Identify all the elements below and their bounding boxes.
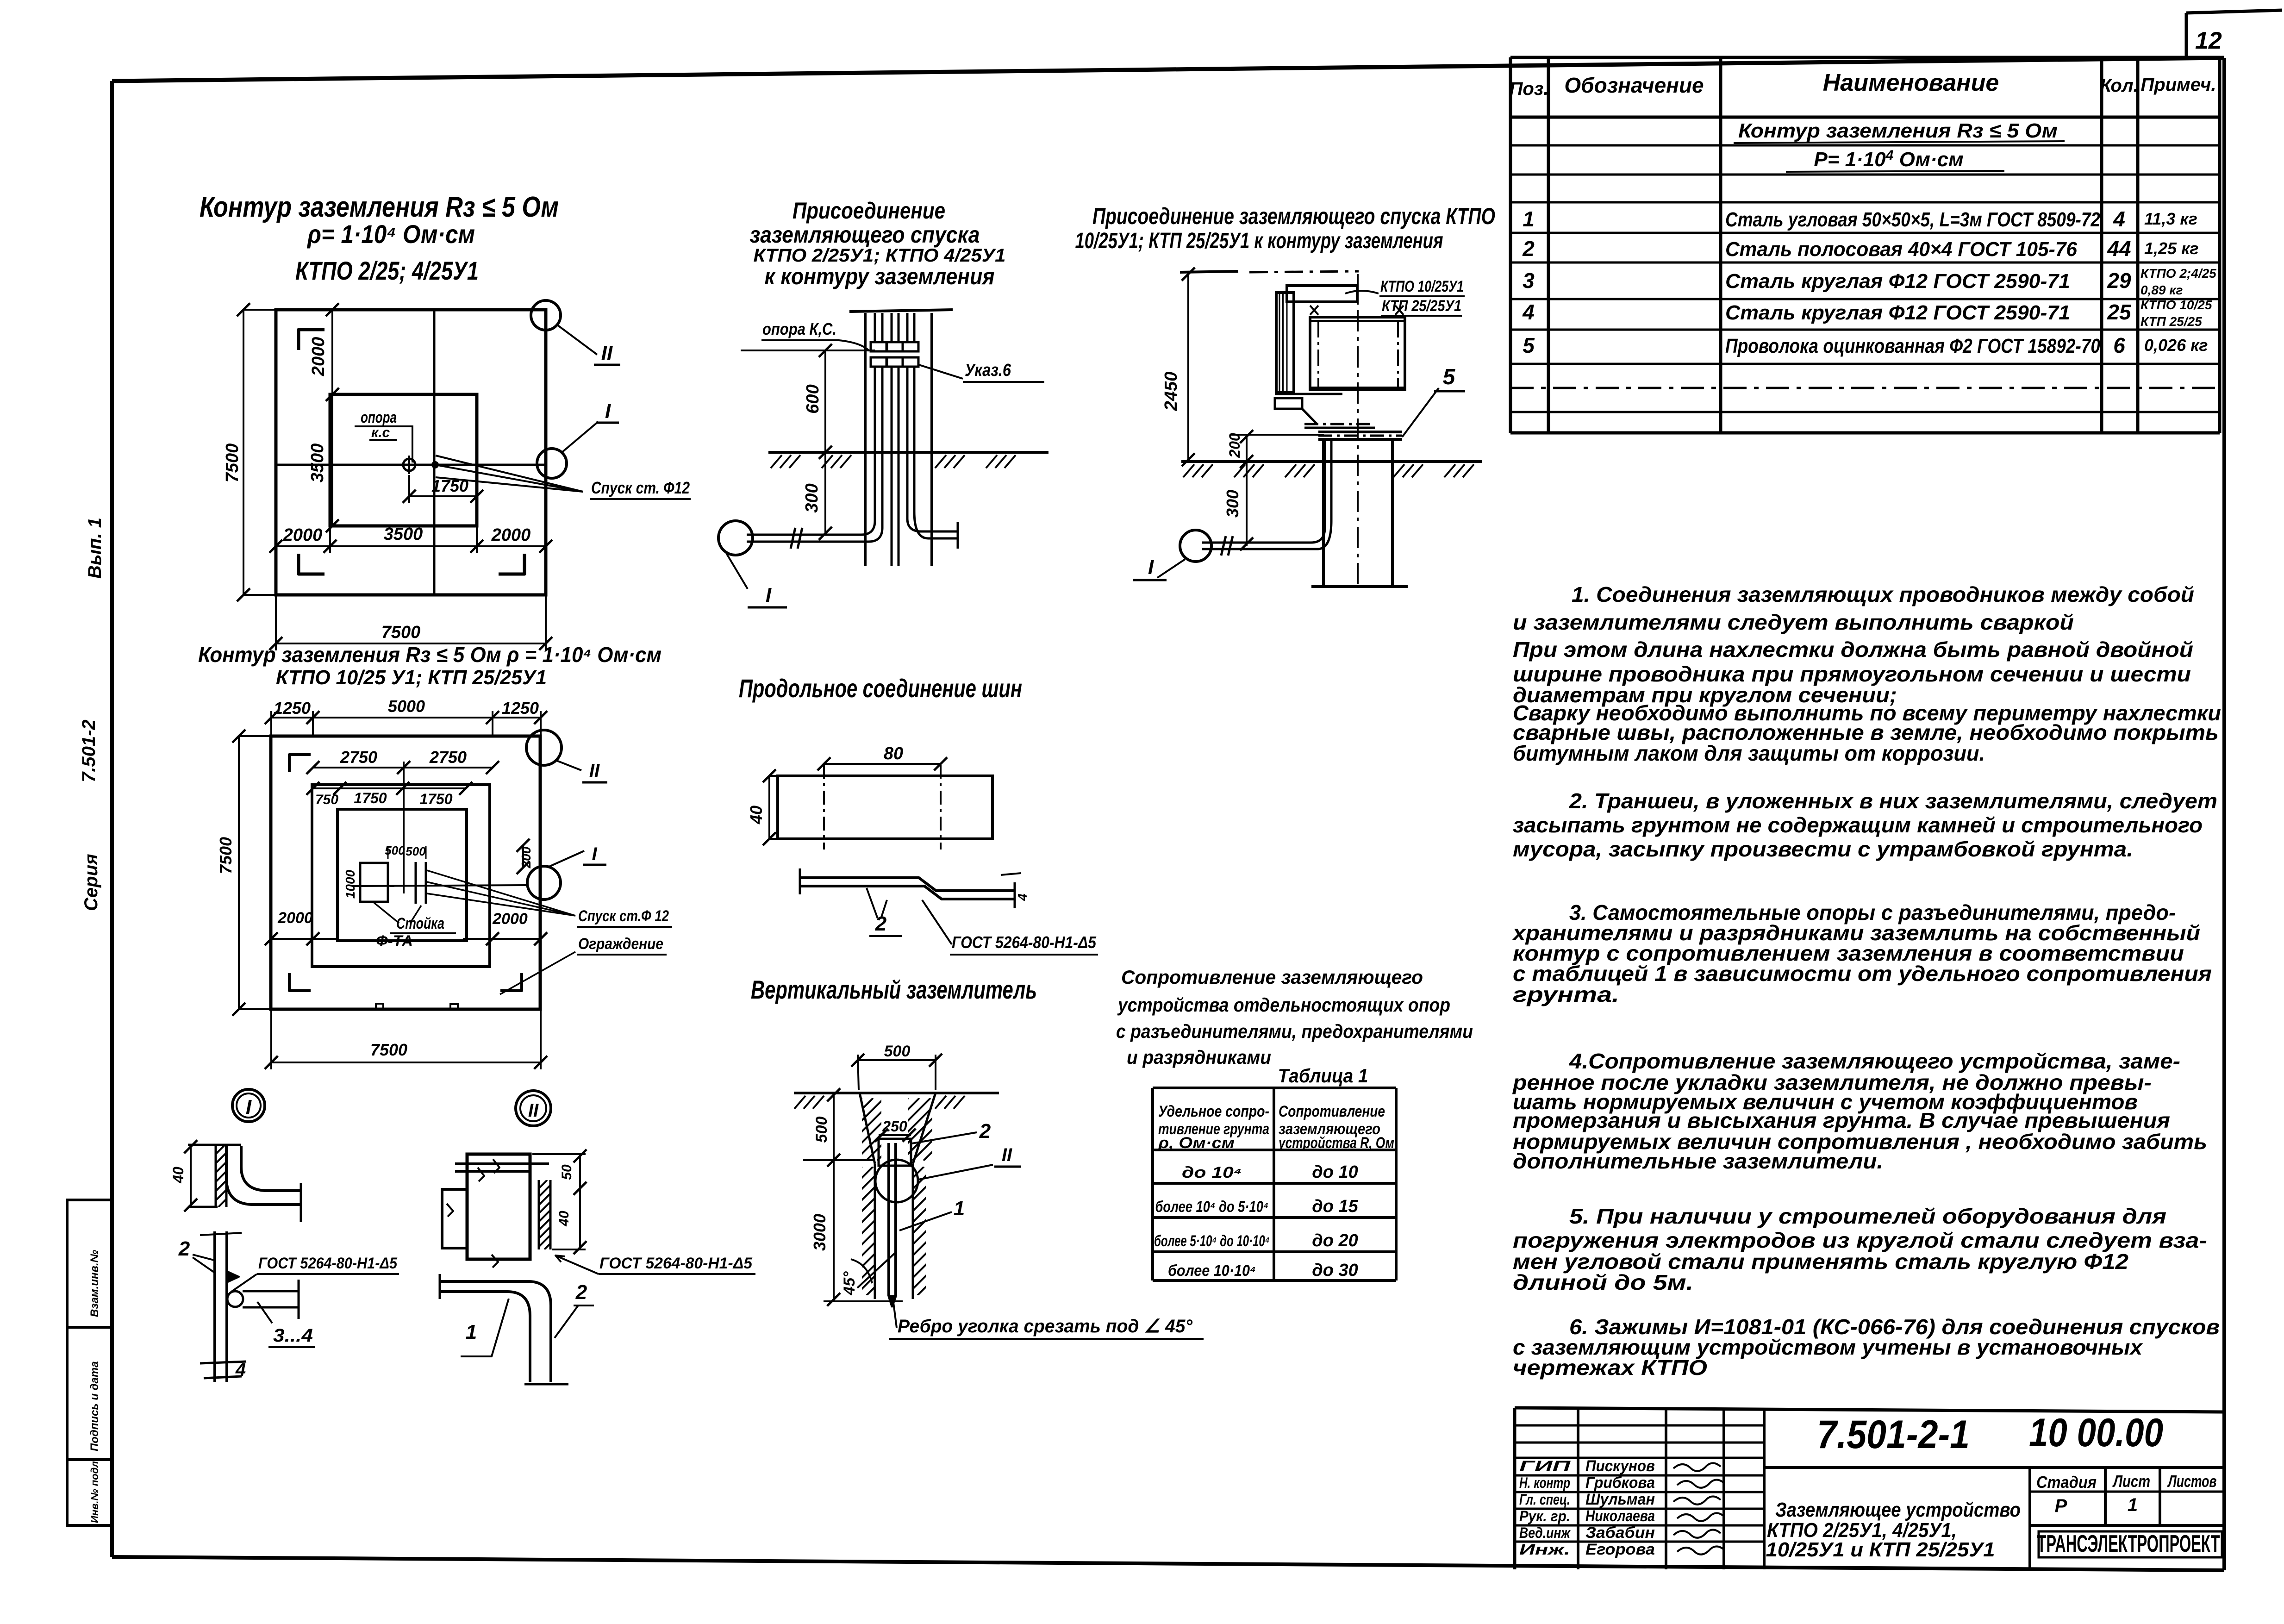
svg-text:Вертикальный заземлитель: Вертикальный заземлитель: [751, 975, 1037, 1004]
svg-text:Продольное соединение шин: Продольное соединение шин: [739, 674, 1022, 703]
svg-text:устройства отдельностоящих о: устройства отдельностоящих опор: [1117, 994, 1450, 1016]
svg-text:ГИП: ГИП: [1519, 1458, 1571, 1474]
svg-text:1250: 1250: [274, 699, 311, 718]
svg-text:Сопротивление: Сопротивление: [1279, 1103, 1385, 1120]
svg-text:засыпать грунтом не содержащ: засыпать грунтом не содержащим камней и …: [1513, 813, 2203, 837]
svg-text:29: 29: [2107, 269, 2131, 293]
svg-text:опора: опора: [361, 409, 397, 426]
svg-text:5. При наличии у строителей: 5. При наличии у строителей оборудования…: [1569, 1204, 2166, 1228]
svg-text:II: II: [528, 1100, 539, 1121]
svg-text:грунта.: грунта.: [1513, 982, 1619, 1006]
svg-text:Таблица 1: Таблица 1: [1278, 1065, 1368, 1087]
svg-text:Ограждение: Ограждение: [578, 935, 663, 953]
svg-text:Листов: Листов: [2167, 1472, 2216, 1491]
svg-text:Поз.: Поз.: [1510, 79, 1549, 99]
svg-text:1: 1: [466, 1321, 477, 1343]
svg-text:50: 50: [559, 1164, 574, 1180]
svg-text:Николаева: Николаева: [1585, 1507, 1655, 1525]
svg-text:Серия: Серия: [81, 854, 101, 911]
svg-text:2750: 2750: [340, 748, 377, 767]
svg-text:Сталь угловая 50×50×5, L=3м ГО: Сталь угловая 50×50×5, L=3м ГОСТ 8509-72: [1725, 208, 2100, 231]
svg-text:2000: 2000: [491, 525, 531, 545]
svg-text:4.Сопротивление заземляющего: 4.Сопротивление заземляющего устройства,…: [1569, 1049, 2180, 1073]
svg-text:КТП 25/25: КТП 25/25: [2140, 314, 2202, 329]
svg-text:более 10⁴ до 5·10⁴: более 10⁴ до 5·10⁴: [1155, 1198, 1269, 1216]
svg-text:Инв.№ подл.: Инв.№ подл.: [89, 1458, 100, 1523]
svg-text:КТПО 10/25 У1; КТП 25/25У1: КТПО 10/25 У1; КТП 25/25У1: [276, 666, 547, 689]
svg-text:2000: 2000: [277, 909, 313, 927]
svg-text:11,3 кг: 11,3 кг: [2144, 209, 2197, 228]
svg-text:КТПО 2/25; 4/25У1: КТПО 2/25; 4/25У1: [295, 256, 479, 285]
svg-text:1000: 1000: [343, 869, 357, 899]
svg-text:до 10⁴: до 10⁴: [1182, 1164, 1242, 1181]
svg-text:750: 750: [315, 792, 338, 807]
svg-text:1,25 кг: 1,25 кг: [2144, 239, 2199, 258]
svg-text:чертежах КТПО: чертежах КТПО: [1513, 1355, 1707, 1380]
svg-text:Гл. спец.: Гл. спец.: [1519, 1491, 1570, 1508]
svg-text:0,026 кг: 0,026 кг: [2144, 336, 2208, 355]
svg-text:При этом длина нахлестки до: При этом длина нахлестки должна быть рав…: [1513, 637, 2193, 662]
svg-text:Проволока оцинкованная Ф2 ГОСТ: Проволока оцинкованная Ф2 ГОСТ 15892-70: [1725, 335, 2100, 357]
svg-text:и разрядниками: и разрядниками: [1127, 1046, 1271, 1068]
svg-text:7500: 7500: [223, 443, 242, 483]
svg-text:7500: 7500: [216, 837, 235, 874]
svg-text:Егорова: Егорова: [1585, 1541, 1655, 1558]
svg-text:II: II: [1002, 1145, 1012, 1165]
svg-text:Вып. 1: Вып. 1: [85, 518, 105, 579]
svg-text:Ребро уголка срезать под ∠ 45°: Ребро уголка срезать под ∠ 45°: [898, 1316, 1193, 1337]
svg-text:2: 2: [979, 1120, 991, 1143]
svg-text:300: 300: [1223, 490, 1242, 518]
svg-text:ГОСТ 5264-80-Н1-Δ5: ГОСТ 5264-80-Н1-Δ5: [952, 933, 1097, 952]
svg-text:I: I: [246, 1096, 252, 1118]
svg-text:битумным лаком для защиты: битумным лаком для защиты от коррозии.: [1513, 741, 1985, 765]
svg-text:2750: 2750: [429, 748, 467, 767]
svg-text:заземляющего спуска: заземляющего спуска: [750, 222, 980, 248]
svg-text:Контур заземления Rз ≤ 5 Ом: Контур заземления Rз ≤ 5 Ом ρ = 1·10⁴ Ом…: [198, 643, 661, 667]
svg-text:80: 80: [884, 744, 903, 763]
svg-text:2450: 2450: [1161, 372, 1181, 412]
svg-text:Лист: Лист: [2112, 1472, 2150, 1491]
svg-text:до 30: до 30: [1312, 1261, 1358, 1280]
svg-text:3000: 3000: [810, 1214, 829, 1251]
svg-text:12: 12: [2195, 27, 2222, 54]
svg-text:Вед.инж: Вед.инж: [1519, 1524, 1571, 1541]
svg-text:2000: 2000: [309, 337, 328, 377]
svg-text:250: 250: [882, 1118, 907, 1135]
svg-text:44: 44: [2107, 237, 2131, 261]
svg-text:до 20: до 20: [1312, 1231, 1358, 1250]
svg-text:Присоединение: Присоединение: [793, 198, 945, 224]
svg-text:промерзания и высыхания гру: промерзания и высыхания грунта. В случае…: [1513, 1108, 2170, 1132]
svg-text:Присоединение заземляющего спу: Присоединение заземляющего спуска КТПО: [1092, 203, 1495, 229]
svg-text:с разъединителями, предохранит: с разъединителями, предохранителями: [1116, 1020, 1473, 1042]
svg-text:2000: 2000: [283, 525, 323, 545]
svg-text:Контур заземления Rз ≤ 5 Ом: Контур заземления Rз ≤ 5 Ом: [1738, 119, 2058, 142]
svg-text:ГОСТ 5264-80-Н1-Δ5: ГОСТ 5264-80-Н1-Δ5: [258, 1255, 398, 1272]
svg-text:4: 4: [2113, 207, 2125, 231]
svg-text:Пискунов: Пискунов: [1585, 1457, 1655, 1475]
svg-text:Н. контр: Н. контр: [1519, 1474, 1570, 1491]
svg-text:3500: 3500: [384, 525, 423, 544]
svg-text:ρ= 1·10⁴ Ом·см: ρ= 1·10⁴ Ом·см: [306, 219, 475, 249]
svg-text:ТРАНСЭЛЕКТРОПРОЕКТ: ТРАНСЭЛЕКТРОПРОЕКТ: [2037, 1530, 2220, 1557]
svg-text:7.501-2-1: 7.501-2-1: [1817, 1412, 1970, 1457]
svg-text:5: 5: [1523, 333, 1535, 357]
svg-text:Контур заземления Rз ≤ 5 О: Контур заземления Rз ≤ 5 Ом: [200, 191, 559, 223]
svg-text:более 5·10⁴ до 10·10⁴: более 5·10⁴ до 10·10⁴: [1154, 1232, 1270, 1250]
svg-text:40: 40: [556, 1211, 572, 1227]
svg-text:3...4: 3...4: [273, 1325, 313, 1346]
svg-text:1. Соединения заземляющих пр: 1. Соединения заземляющих проводников ме…: [1572, 582, 2194, 606]
svg-text:40: 40: [747, 806, 766, 824]
svg-text:4: 4: [1522, 300, 1535, 324]
svg-text:погружения электродов из кр: погружения электродов из круглой стали с…: [1513, 1228, 2207, 1252]
svg-text:дополнительные заземлители.: дополнительные заземлители.: [1513, 1149, 1883, 1173]
svg-text:Сталь круглая Ф12: Сталь круглая Ф12 ГОСТ 2590-71: [1725, 270, 2070, 293]
svg-text:Спуск ст. Ф12: Спуск ст. Ф12: [591, 478, 690, 497]
svg-text:Примеч.: Примеч.: [2141, 75, 2216, 95]
svg-text:Инж.: Инж.: [1519, 1541, 1570, 1558]
svg-text:мусора, засыпку произвести: мусора, засыпку произвести с утрамбовкой…: [1513, 837, 2133, 861]
svg-text:4: 4: [1015, 893, 1030, 901]
svg-text:Спуск ст.Ф 12: Спуск ст.Ф 12: [578, 907, 669, 925]
svg-text:длиной до 5м.: длиной до 5м.: [1513, 1270, 1693, 1294]
svg-text:Стадия: Стадия: [2036, 1473, 2097, 1492]
svg-text:Р: Р: [2055, 1496, 2067, 1516]
svg-text:ГОСТ 5264-80-Н1-Δ5: ГОСТ 5264-80-Н1-Δ5: [599, 1255, 753, 1272]
svg-text:3500: 3500: [308, 443, 327, 483]
svg-text:5: 5: [1443, 365, 1456, 389]
svg-text:Сталь полосовая 40×4 ГО: Сталь полосовая 40×4 ГОСТ 105-76: [1725, 238, 2078, 261]
svg-text:2: 2: [1522, 237, 1535, 261]
svg-text:КТПО 2/25У1; КТПО 4/25У1: КТПО 2/25У1; КТПО 4/25У1: [754, 245, 1006, 266]
svg-text:3: 3: [1523, 269, 1535, 293]
svg-text:ρ, Ом·см: ρ, Ом·см: [1158, 1134, 1235, 1152]
svg-text:I: I: [1148, 556, 1154, 579]
svg-text:КТПО 10/25: КТПО 10/25: [2140, 298, 2212, 312]
svg-text:Ф-ТА: Ф-ТА: [376, 932, 413, 950]
svg-text:500: 500: [884, 1043, 911, 1060]
svg-text:КТПО 10/25У1: КТПО 10/25У1: [1380, 278, 1464, 295]
svg-text:45°: 45°: [841, 1271, 858, 1296]
svg-text:Заземляющее устройство: Заземляющее устройство: [1775, 1499, 2021, 1521]
svg-text:до 15: до 15: [1312, 1197, 1358, 1216]
svg-text:II: II: [601, 342, 613, 364]
svg-text:Сопротивление заземляющего: Сопротивление заземляющего: [1121, 966, 1423, 988]
svg-text:5000: 5000: [388, 697, 425, 716]
svg-text:2: 2: [575, 1281, 587, 1304]
svg-text:КТПО 2;4/25: КТПО 2;4/25: [2140, 266, 2216, 281]
svg-text:2000: 2000: [492, 910, 528, 928]
svg-text:200: 200: [519, 846, 533, 868]
svg-text:7500: 7500: [370, 1040, 407, 1059]
svg-text:10/25У1 и КТП 25/25У1: 10/25У1 и КТП 25/25У1: [1766, 1538, 1995, 1561]
svg-text:6: 6: [2113, 333, 2125, 357]
svg-text:I: I: [766, 584, 772, 606]
svg-text:1750: 1750: [354, 790, 387, 806]
svg-text:устройства R, Ом: устройства R, Ом: [1278, 1134, 1394, 1152]
svg-text:Кол.: Кол.: [2100, 75, 2139, 96]
svg-text:1: 1: [954, 1197, 965, 1220]
svg-text:2: 2: [178, 1237, 190, 1260]
svg-text:7.501-2: 7.501-2: [79, 719, 99, 782]
svg-text:и заземлителями следует вып: и заземлителями следует выполнить сварко…: [1513, 610, 2074, 634]
svg-text:до 10: до 10: [1312, 1162, 1358, 1182]
svg-text:II: II: [589, 761, 600, 781]
svg-text:1250: 1250: [502, 699, 539, 718]
svg-text:Стойка: Стойка: [396, 915, 444, 932]
svg-text:25: 25: [2107, 300, 2132, 324]
svg-text:0,89 кг: 0,89 кг: [2140, 283, 2183, 297]
svg-text:500: 500: [813, 1117, 830, 1143]
svg-text:КТП 25/25У1: КТП 25/25У1: [1382, 297, 1461, 315]
svg-text:10 00.00: 10 00.00: [2029, 1411, 2163, 1455]
svg-text:300: 300: [802, 483, 822, 512]
svg-text:Шульман: Шульман: [1585, 1491, 1655, 1508]
svg-text:500: 500: [406, 844, 426, 858]
svg-text:1: 1: [1523, 207, 1535, 231]
svg-text:200: 200: [1226, 433, 1243, 458]
svg-text:I: I: [592, 844, 597, 864]
svg-text:Забабин: Забабин: [1585, 1524, 1655, 1542]
svg-text:1750: 1750: [419, 791, 452, 807]
svg-text:1: 1: [2128, 1495, 2138, 1515]
svg-text:40: 40: [170, 1167, 187, 1184]
svg-text:Наименование: Наименование: [1823, 69, 1999, 96]
svg-text:10/25У1; КТП 25/25У1 к контур: 10/25У1; КТП 25/25У1 к контуру заземлени…: [1075, 229, 1443, 253]
svg-text:Сталь круглая Ф12: Сталь круглая Ф12 ГОСТ 2590-71: [1725, 301, 2070, 324]
svg-text:7500: 7500: [381, 623, 421, 642]
svg-text:к контуру заземления: к контуру заземления: [765, 263, 995, 289]
svg-text:Удельное сопро-: Удельное сопро-: [1158, 1103, 1269, 1120]
svg-text:Подпись и дата: Подпись и дата: [88, 1361, 101, 1451]
svg-text:Обозначение: Обозначение: [1564, 73, 1704, 97]
svg-text:Грибкова: Грибкова: [1585, 1474, 1655, 1492]
svg-text:Взам.инв.№: Взам.инв.№: [88, 1249, 101, 1317]
svg-text:более 10·10⁴: более 10·10⁴: [1168, 1262, 1256, 1280]
svg-text:опора К,С.: опора К,С.: [762, 319, 836, 338]
svg-text:2. Траншеи, в уложенных в: 2. Траншеи, в уложенных в них заземлител…: [1569, 789, 2217, 813]
svg-text:I: I: [605, 400, 611, 423]
svg-text:600: 600: [803, 384, 823, 413]
svg-text:Указ.6: Указ.6: [965, 361, 1011, 380]
svg-text:Рук. гр.: Рук. гр.: [1519, 1508, 1570, 1524]
